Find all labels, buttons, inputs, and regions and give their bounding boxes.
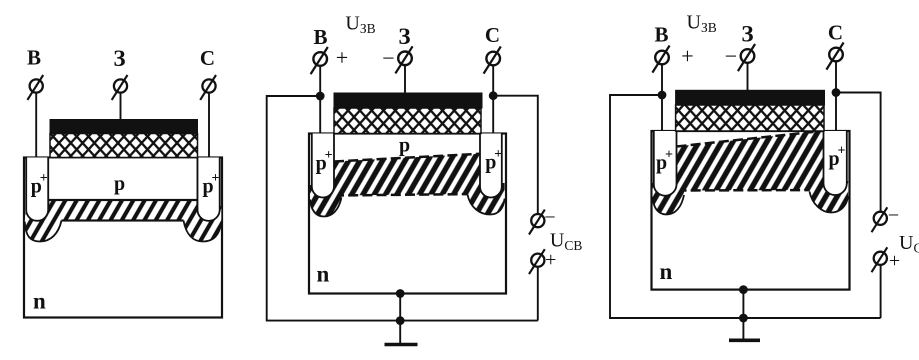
depletion wedge (hatched) D2: [334, 154, 480, 196]
wedge upper dashed boundary D3: [677, 131, 824, 147]
svg-text:−: −: [888, 205, 899, 227]
svg-text:+: +: [838, 144, 846, 159]
svg-text:n: n: [33, 289, 46, 314]
wire from C terminal D3: [835, 62, 837, 132]
n-substrate body D1: [24, 158, 222, 318]
svg-text:+: +: [889, 250, 900, 272]
p+ well left D2: [312, 134, 334, 198]
svg-text:−: −: [382, 46, 394, 71]
junction dot on B wire D2: [316, 92, 325, 101]
svg-text:+: +: [665, 148, 673, 163]
p+ well left D3: [654, 131, 677, 196]
junction dot on C wire D2: [489, 91, 498, 100]
svg-text:n: n: [317, 262, 330, 287]
svg-text:+: +: [212, 171, 220, 186]
svg-text:+: +: [681, 44, 693, 69]
depletion crescent under left p+ well D1: [25, 206, 62, 242]
svg-text:n: n: [660, 259, 673, 284]
gate oxide (crosshatch) D3: [676, 105, 824, 131]
terminal C D2: [484, 47, 501, 74]
wire right branch lower (plus terminal to bottom) D2: [537, 267, 539, 321]
n-substrate body D2: [309, 134, 506, 294]
junction dot bottom rail D3: [739, 314, 748, 323]
svg-text:В: В: [27, 46, 41, 70]
wire from Z terminal D2: [404, 66, 406, 93]
svg-text:З: З: [113, 46, 125, 71]
wire right branch upper (C to minus terminal) D3: [836, 93, 881, 212]
DIAGRAM 1: [24, 46, 222, 318]
terminal Z D2: [395, 46, 412, 73]
svg-text:+: +: [325, 148, 333, 163]
svg-text:UЗВ: UЗВ: [345, 12, 375, 36]
svg-text:−: −: [725, 44, 737, 69]
depletion layer (hatched bar) D1: [48, 200, 197, 221]
terminal B D3: [652, 46, 669, 73]
n-substrate body D3: [652, 131, 850, 290]
wire substrate to bottom rail D2: [399, 294, 401, 321]
gate oxide (crosshatch) D2: [334, 108, 481, 134]
ground bar D2: [385, 343, 418, 347]
depletion crescent under left p+ well D3: [653, 183, 685, 215]
wire from Z terminal D3: [747, 63, 749, 90]
ground bar D3: [729, 338, 760, 342]
terminal B D2: [311, 47, 328, 74]
ground stem D3: [742, 318, 744, 339]
wedge lower dashed boundary D2: [334, 194, 480, 196]
p+ well left D1: [26, 158, 48, 221]
wire loop left (B to bottom) D3: [610, 95, 881, 318]
wire from C terminal D2: [492, 66, 494, 134]
junction dot substrate bottom D2: [396, 289, 405, 298]
depletion wedge (hatched) D3: [677, 131, 824, 191]
ground stem D2: [399, 321, 401, 344]
wire right branch lower (plus terminal to bottom) D3: [880, 265, 882, 318]
terminal C D1: [200, 75, 216, 100]
wire from B terminal D2: [319, 66, 321, 134]
svg-text:В: В: [313, 25, 327, 49]
svg-text:С: С: [828, 21, 843, 45]
svg-text:+: +: [40, 171, 48, 186]
svg-text:З: З: [741, 22, 753, 47]
p+ well right D3: [824, 131, 847, 195]
gate metal (black bar) D2: [334, 93, 482, 108]
svg-text:p: p: [399, 135, 410, 157]
svg-text:p: p: [114, 173, 125, 195]
svg-text:UСВ: UСВ: [899, 232, 919, 256]
svg-text:С: С: [485, 23, 500, 47]
wire right branch upper (C to minus terminal) D2: [493, 96, 538, 214]
gate oxide (crosshatch) D1: [50, 134, 198, 158]
wire from C terminal D1: [208, 93, 210, 158]
terminal B D1: [27, 75, 43, 100]
wire from B terminal D3: [661, 65, 663, 132]
p channel region D1: [48, 158, 197, 201]
terminal Z D1: [112, 75, 128, 100]
terminal C D3: [826, 43, 843, 70]
junction dot on B wire D3: [658, 91, 667, 100]
wire loop left (B to bottom) D2: [267, 96, 538, 321]
svg-text:−: −: [544, 207, 555, 229]
junction dot substrate bottom D3: [739, 285, 748, 294]
junction dot bottom rail D2: [396, 316, 405, 325]
gate metal (black bar) D3: [676, 90, 825, 105]
svg-text:+: +: [336, 45, 348, 70]
DIAGRAM 2: [267, 12, 583, 344]
wedge upper dashed boundary D2: [334, 154, 480, 162]
terminal minus of U_CB source D2: [529, 210, 545, 235]
depletion crescent under right p+ well D2: [468, 183, 505, 215]
p+ well right D2: [480, 134, 502, 198]
svg-text:UЗВ: UЗВ: [687, 12, 717, 36]
junction dot on C wire D3: [832, 88, 841, 97]
wedge lower dashed boundary D3: [677, 189, 824, 192]
terminal plus of U_C source D3: [872, 247, 888, 272]
svg-text:В: В: [654, 23, 668, 47]
gate metal (black bar) D1: [50, 120, 198, 134]
depletion crescent under right p+ well D3: [810, 181, 849, 213]
svg-text:З: З: [398, 24, 410, 49]
wire substrate to bottom rail D3: [742, 290, 744, 318]
depletion crescent under right p+ well D1: [184, 206, 222, 242]
svg-text:+: +: [545, 249, 556, 271]
wire from Z terminal D1: [120, 93, 122, 120]
terminal plus of U_CB source D2: [529, 249, 545, 274]
svg-text:С: С: [200, 46, 215, 70]
terminal minus of U_C source D3: [872, 207, 888, 232]
svg-text:+: +: [494, 147, 502, 162]
p+ well right D1: [198, 158, 220, 221]
wire from B terminal D1: [35, 93, 37, 158]
depletion crescent under left p+ well D2: [310, 185, 342, 217]
terminal Z D3: [738, 44, 755, 71]
DIAGRAM 3: [610, 12, 919, 341]
